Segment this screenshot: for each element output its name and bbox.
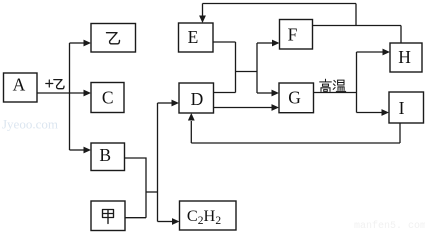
- svg-text:A: A: [13, 75, 26, 95]
- svg-text:manfen5. com: manfen5. com: [354, 220, 425, 232]
- svg-text:G: G: [288, 88, 301, 108]
- svg-text:D: D: [191, 89, 204, 109]
- svg-text:C: C: [102, 88, 114, 108]
- svg-text:F: F: [288, 25, 298, 45]
- svg-text:E: E: [188, 27, 199, 47]
- svg-text:B: B: [99, 145, 111, 165]
- svg-text:H: H: [398, 47, 411, 67]
- svg-text:I: I: [399, 98, 405, 118]
- svg-text:Jyeoo.com: Jyeoo.com: [2, 117, 58, 132]
